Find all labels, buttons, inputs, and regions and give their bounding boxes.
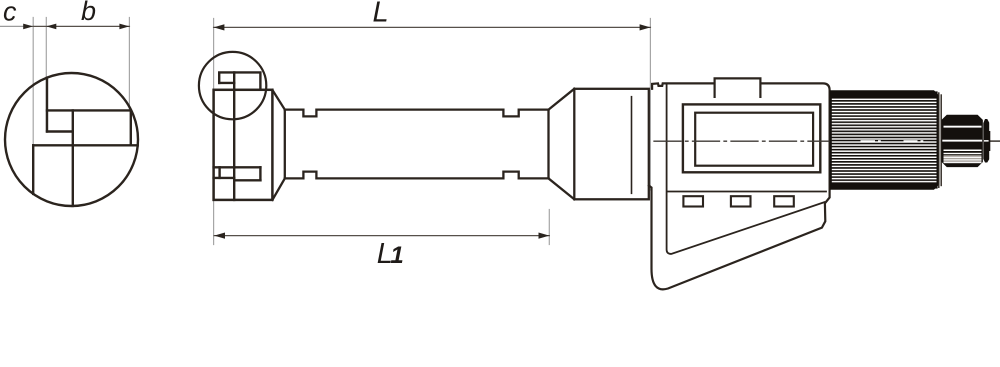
detail: pin middle vertical — [72, 110, 74, 205]
bottom pin bottom edge — [234, 179, 260, 181]
detail: head top face horizontal — [33, 144, 137, 146]
ratchet lower knurl zone — [944, 155, 982, 163]
extension line x=46 (c right / b left) — [45, 18, 47, 132]
thimble top band — [831, 91, 938, 97]
extension line x=129 (b right) — [128, 18, 130, 111]
tube right edge — [547, 110, 549, 179]
detail indicator circle on head — [199, 52, 266, 119]
end cap white centerline — [984, 140, 989, 142]
detail: pin step horizontal — [47, 130, 73, 132]
arrowhead L1 left (points left, tip x=214.2) — [214, 233, 225, 239]
end cap middle boss — [989, 131, 991, 151]
dimension line L — [214, 26, 651, 28]
extension line x=650.4 (L right) — [649, 19, 651, 191]
detail circle (magnified view) — [5, 73, 138, 206]
arrowhead b right (points right, tip x=129.4) — [119, 24, 129, 30]
top pin step — [219, 82, 234, 84]
centerline white dash 2 over thimble — [904, 140, 918, 142]
thimble end face line 2 — [940, 95, 942, 186]
centerline white dot 2 over thimble — [921, 140, 924, 142]
cone body — [574, 89, 649, 200]
centerline white dash 1 over thimble — [861, 140, 876, 142]
tube bottom edge with relief notches — [285, 172, 549, 179]
measuring head body — [214, 90, 273, 200]
arrowhead c right / b left (points left, tip x=46.3) — [46, 24, 56, 30]
taper head to tube, top — [272, 90, 284, 110]
LCD bezel outer — [683, 104, 820, 172]
svg-text:1: 1 — [390, 242, 403, 269]
button strip line — [668, 191, 827, 193]
thimble knurled body — [831, 91, 938, 188]
tube left edge — [284, 110, 286, 179]
ratchet end cap — [984, 120, 989, 162]
LCD screen inner — [695, 113, 813, 166]
extension line x=549.3 (L1 right) — [548, 210, 550, 245]
dimension line c-b — [33, 25, 129, 27]
housing top tab (on/off button) — [715, 78, 761, 97]
extension line x=33 (c left) — [32, 18, 34, 146]
ratchet knurl white line 2 — [944, 159, 982, 160]
bottom pin inner step vertical — [218, 167, 220, 178]
arrowhead L1 right (points right, tip x=549.3) — [539, 233, 550, 239]
ratchet white groove 3 — [944, 150, 982, 152]
bottom pin inner step horizontal — [214, 177, 235, 179]
tube top edge with relief notches — [285, 110, 549, 117]
housing outer outline — [649, 83, 830, 289]
bottom pin right edge — [259, 167, 261, 180]
thimble end face line 1 — [938, 93, 940, 187]
taper head to tube, bottom — [272, 178, 284, 200]
extension line x=213.6 (L / L1 left) — [213, 19, 215, 245]
ratchet white groove 1 — [944, 126, 982, 128]
button 2 — [731, 196, 751, 206]
svg-text:b: b — [81, 0, 96, 26]
button 1 — [683, 196, 703, 206]
centerline white dot 1 over thimble — [878, 140, 881, 142]
housing inner left edge and inner bevel slant — [667, 83, 825, 254]
button 3 — [774, 196, 794, 206]
ratchet body — [942, 116, 982, 167]
ratchet centerline white — [942, 140, 982, 142]
cone interior ring line — [631, 97, 633, 194]
pin middle vertical through head — [233, 72, 235, 199]
ratchet knurl white line 1 — [944, 157, 982, 158]
centerline dash-dot through LCD — [654, 140, 830, 142]
svg-text:c: c — [3, 0, 17, 27]
ratchet knurl white line 3 — [944, 162, 982, 163]
arrowhead L left (points left, tip x=213.6) — [214, 24, 225, 30]
svg-text:L: L — [373, 0, 389, 28]
arrowhead L right (points right, tip x=650.4) — [640, 24, 651, 30]
dimension line L1 — [214, 235, 549, 237]
arrowhead c left (points right, tip x=33.2) — [23, 24, 33, 30]
taper tube to cone, bottom — [549, 178, 575, 199]
top pin outline — [219, 72, 260, 89]
detail: head left edge vertical — [32, 145, 34, 194]
taper tube to cone, top — [549, 89, 575, 110]
thimble bottom band — [831, 182, 938, 188]
ratchet white groove 4 — [944, 153, 982, 154]
detail: pin left edge vertical — [46, 78, 48, 132]
detail: pin top face horizontal — [47, 109, 131, 111]
bottom pin top edge — [214, 166, 261, 168]
detail: pin right edge vertical — [130, 110, 132, 145]
centerline tail to right edge — [990, 140, 1000, 142]
dimension line c (leader from left edge) — [0, 25, 33, 27]
